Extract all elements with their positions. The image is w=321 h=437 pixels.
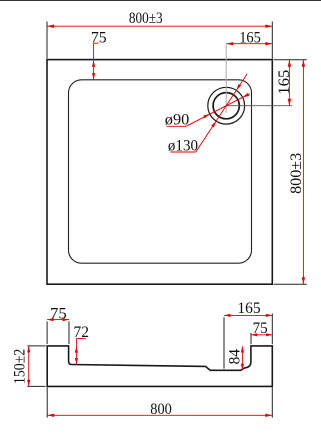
svg-text:800±3: 800±3 <box>288 153 305 194</box>
dimension 800+-3 right vertical <box>302 60 304 284</box>
dimension 75 top-left <box>93 43 95 79</box>
extension line left for top 800 dim <box>46 22 48 59</box>
extension lines for bottom 800 <box>46 387 48 417</box>
svg-text:72: 72 <box>74 324 90 341</box>
extension lines for section 75 left dim <box>46 321 48 344</box>
section profile outline <box>47 346 272 387</box>
dimension 165 right vertical <box>288 60 290 106</box>
inner rounded square (basin edge) <box>69 80 252 263</box>
svg-text:165: 165 <box>276 70 293 95</box>
dimension 165 section <box>224 314 272 316</box>
dimension 75 section left <box>47 319 69 321</box>
extension line right rim step <box>250 333 252 344</box>
extension line right edge above rim <box>271 313 273 344</box>
dimension 72 section <box>75 338 77 364</box>
centerline vertical through drain <box>225 45 227 113</box>
extension line drain center section <box>223 317 225 368</box>
svg-text:84: 84 <box>227 349 244 364</box>
drain circle inner 90 <box>213 93 239 119</box>
svg-text:75: 75 <box>91 30 107 47</box>
extension line y283 right of square <box>274 283 307 285</box>
dimension 150+-2 left vertical <box>28 346 30 387</box>
svg-text:800±3: 800±3 <box>129 10 163 27</box>
svg-text:165: 165 <box>237 300 260 317</box>
extension line right for top 800 dim <box>271 22 273 59</box>
drain circle outer 130 <box>208 87 245 124</box>
dimension 165 top-right <box>226 43 272 45</box>
outer square (tray outline, top view) <box>47 60 272 285</box>
dimension 800+-3 top <box>47 25 272 27</box>
svg-text:ø90: ø90 <box>165 112 190 129</box>
extension lines for 150+-2 <box>27 345 45 347</box>
svg-text:800: 800 <box>150 401 172 418</box>
centerline horizontal from drain to right dim <box>226 105 292 107</box>
dimension 84 section <box>241 346 243 370</box>
dimension 75 section right <box>251 334 272 336</box>
leader diameter 130 <box>170 151 196 153</box>
extension line y59 right of square <box>274 59 307 61</box>
svg-text:ø130: ø130 <box>168 137 198 154</box>
dimension 800 bottom <box>47 414 272 416</box>
leader diameter 90 <box>167 125 187 127</box>
svg-text:75: 75 <box>50 306 67 323</box>
svg-text:75: 75 <box>253 320 268 337</box>
svg-text:165: 165 <box>239 30 261 47</box>
svg-text:150±2: 150±2 <box>11 349 28 384</box>
